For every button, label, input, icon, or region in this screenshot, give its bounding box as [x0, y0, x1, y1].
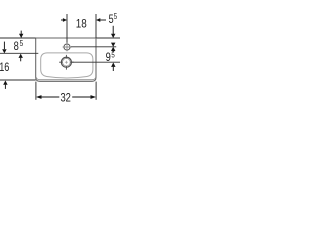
drain crosshair ticks: [59, 55, 74, 70]
bowl rear edge dimension line left: [0, 52, 38, 54]
drain center cross: [65, 61, 68, 64]
dim 16 top arrow (down): [3, 42, 5, 50]
dim 32 left extension line: [35, 82, 37, 100]
svg-text:8: 8: [14, 39, 19, 53]
dim 5.5 top arrow (down): [112, 26, 114, 34]
rear edge dimension line left: [0, 37, 36, 39]
svg-text:16: 16: [0, 60, 10, 74]
background: [0, 0, 120, 120]
tap hole crosshair: [63, 43, 72, 52]
dim 8.5 bottom arrow (up): [19, 54, 23, 58]
dim 32 left arrow: [36, 95, 42, 99]
svg-text:18: 18: [76, 17, 87, 31]
drain inner circle: [63, 58, 71, 66]
svg-text:5: 5: [111, 50, 115, 59]
svg-text:5: 5: [20, 39, 24, 48]
dim 18 right arrow: [96, 18, 100, 22]
front edge dimension line left: [0, 79, 36, 81]
dim 5.5 bottom arrow / dim 9.5 top arrow (diamond): [112, 51, 114, 53]
tap hole leader line: [71, 46, 116, 48]
svg-text:32: 32: [60, 90, 71, 104]
dim 9.5 bottom arrow (up): [111, 63, 115, 67]
drain outer circle: [61, 57, 71, 67]
svg-text:5: 5: [114, 12, 118, 21]
rear edge reference line right: [97, 37, 121, 39]
inner bowl: [41, 53, 93, 78]
dim 8.5 top arrow (down): [20, 31, 22, 35]
drain leader line: [72, 61, 120, 63]
dim 32 right extension line: [95, 82, 97, 100]
dim 16 bottom arrow (up): [3, 81, 7, 85]
basin front inner rim line: [36, 77, 95, 80]
dim 32 right arrow: [72, 96, 90, 98]
basin outer rim: [36, 38, 96, 81]
extension line from tap hole up (dim 18 left): [66, 14, 68, 43]
extension line right edge top (dim 18 right): [95, 14, 97, 38]
dim 18 left arrow: [61, 19, 64, 21]
tap hole circle: [64, 44, 70, 50]
